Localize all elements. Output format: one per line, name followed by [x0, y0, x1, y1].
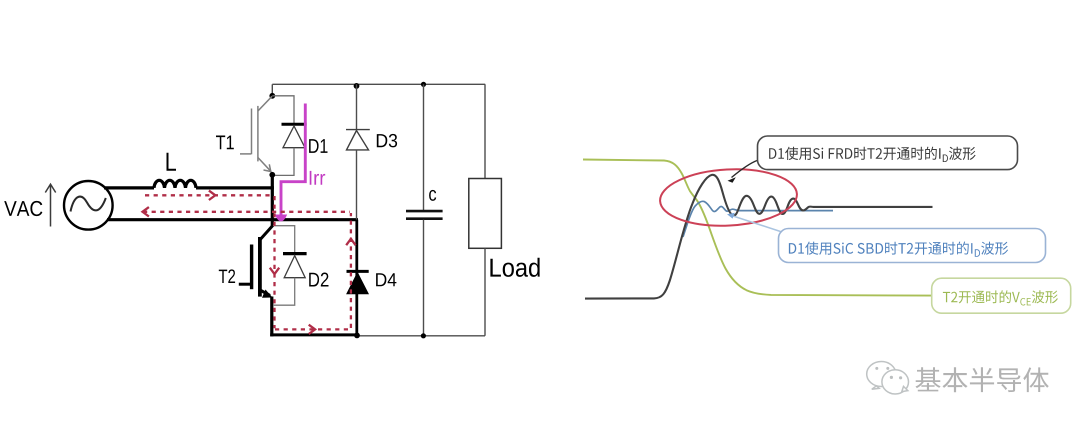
wire top rail [272, 83, 485, 85]
transistor T1 [240, 96, 272, 172]
VAC polarity arrow [45, 184, 55, 226]
wire VAC top [104, 186, 154, 189]
wire VAC bottom [107, 218, 358, 221]
callout box VCE [932, 278, 1071, 313]
capacitor C [406, 211, 443, 219]
label VAC [4, 201, 42, 216]
current arrow right bottom [309, 325, 315, 334]
callout text VCE [943, 290, 1058, 305]
diode D3 [346, 130, 370, 150]
node T1 emitter [269, 172, 275, 178]
label c [429, 190, 436, 201]
current path D4 dash [350, 213, 352, 328]
label D3 [377, 134, 397, 148]
callout box FRD [758, 136, 1018, 170]
node D3 top [354, 83, 360, 89]
current path T2 dash [273, 196, 275, 328]
node C bottom [421, 333, 426, 338]
label Irr [310, 171, 326, 185]
node C top [421, 82, 426, 87]
wire bottom rail bold [270, 333, 358, 336]
waveform ID Si FRD black [585, 175, 933, 299]
AC source VAC [64, 181, 113, 230]
wire bottom rail thin [358, 335, 485, 337]
wire mid leg [271, 175, 274, 227]
node T1 collector [269, 93, 275, 99]
wire D2 top [273, 226, 295, 253]
label D2 [309, 273, 328, 287]
label T2 [219, 269, 235, 283]
current arrow right top [209, 191, 215, 200]
wire D3 upper [356, 84, 358, 129]
diode D2 [283, 254, 307, 278]
wire C upper [423, 84, 425, 210]
wire Load upper [484, 84, 486, 178]
wire leg1 top stub [271, 84, 273, 96]
node D4 bottom [354, 333, 360, 339]
current arrow left [143, 207, 149, 216]
wire D1 top [272, 96, 294, 123]
wire T2 emitter leg [270, 297, 273, 337]
diode D1 [282, 124, 307, 148]
leader line FRD [728, 161, 758, 183]
current path top dash [145, 194, 273, 196]
label L [167, 153, 177, 171]
wire C lower [423, 220, 425, 336]
watermark icon [867, 362, 909, 395]
leader line SiC [727, 213, 781, 232]
label Load [490, 258, 539, 277]
callout text SiC [789, 242, 1008, 257]
current arrow down [270, 268, 279, 274]
label D4 [376, 273, 396, 286]
wire D2 bottom [273, 278, 295, 306]
transistor T2 [239, 226, 273, 298]
wire D3 lower [356, 150, 358, 220]
current arrow up [346, 239, 355, 245]
Irr current path [275, 104, 306, 222]
highlight ellipse [659, 166, 799, 229]
wire D1 bottom [273, 148, 294, 176]
callout text FRD [769, 147, 975, 162]
callout box SiC [779, 229, 1046, 263]
wire Load lower [484, 248, 486, 335]
label D1 [309, 139, 327, 153]
inductor L [154, 180, 196, 188]
waveform VCE green [583, 160, 932, 296]
wire D4 leg [355, 220, 358, 335]
diode D4 [347, 271, 369, 293]
load resistor [469, 179, 502, 249]
watermark text [916, 367, 1051, 393]
label T1 [216, 136, 234, 150]
current path bottom dash [275, 328, 350, 330]
waveform ID SiC blue [683, 201, 833, 237]
wire L to leg [196, 186, 274, 189]
current path return dash [143, 211, 350, 213]
